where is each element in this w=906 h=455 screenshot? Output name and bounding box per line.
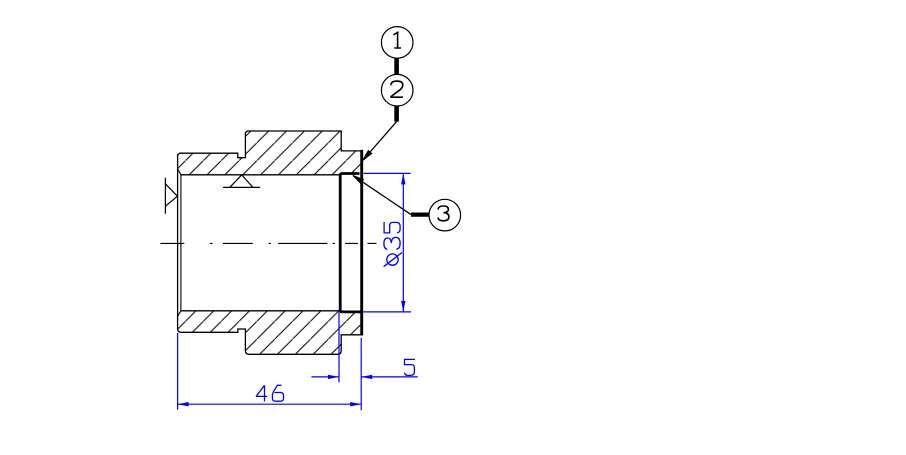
- dimension line 5 left tail: [311, 376, 339, 378]
- dimension line 46: [178, 403, 362, 405]
- arrow 5 right pointing left: [361, 375, 372, 379]
- leader 3 arrowhead: [353, 176, 363, 184]
- hatched section lower band of bushing: [178, 311, 361, 355]
- dimension extension line 46 left: [177, 333, 179, 410]
- leader 2 arrowhead: [363, 151, 372, 161]
- datum support symbol: [223, 175, 260, 188]
- dimension line 5 right tail: [361, 376, 418, 378]
- leader line balloon 3: [353, 176, 411, 215]
- balloon 3 digit: [438, 206, 449, 221]
- bore chamfer bottom left: [178, 311, 181, 317]
- bushing left face: [177, 154, 179, 329]
- bore chamfer top left: [178, 169, 181, 175]
- bushing outer profile top: [178, 131, 361, 158]
- leader line balloon 2: [363, 122, 397, 161]
- hatched section upper band of bushing: [178, 131, 361, 175]
- dimension text dia35 rotated: [384, 222, 402, 267]
- balloon 1 digit: [394, 32, 402, 48]
- end disc thick line: [360, 150, 363, 336]
- stub below balloon 2: [394, 106, 399, 121]
- stub between balloon 1 and 2: [394, 59, 399, 75]
- balloon 1 circle: [381, 27, 413, 59]
- extension line dia35 bottom: [363, 311, 412, 313]
- dimension line dia35: [402, 173, 404, 312]
- stub balloon 3: [411, 213, 429, 217]
- balloon 2 digit: [391, 81, 403, 97]
- arrow 5 left pointing right: [328, 375, 339, 379]
- dimension extension line 5 left: [338, 312, 340, 382]
- dimension text 46: [256, 385, 284, 401]
- surface finish symbol left: [165, 178, 177, 214]
- arrow dia35 bottom: [401, 301, 405, 312]
- bore chamfer edge vertical: [180, 175, 182, 311]
- bushing outer profile bottom: [178, 329, 361, 355]
- extension line dia35 top: [364, 172, 411, 174]
- bore line bottom: [181, 310, 339, 312]
- arrow 46 right: [350, 402, 361, 406]
- arrow 46 left: [178, 402, 189, 406]
- dimension text 5: [405, 359, 415, 375]
- balloon 2 circle: [381, 74, 413, 106]
- bore line top: [181, 174, 339, 176]
- center line dash-dot: [160, 242, 376, 244]
- balloon 3 circle: [429, 199, 461, 231]
- arrow dia35 top: [401, 173, 405, 184]
- dimension extension line right shared: [360, 338, 362, 410]
- cup plug thick outline: [340, 174, 362, 312]
